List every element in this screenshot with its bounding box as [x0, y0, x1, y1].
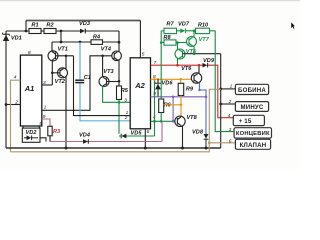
svg-text:VD7: VD7	[178, 21, 190, 27]
junction green vertical 2/pin4 wire	[153, 120, 156, 123]
wire A2 pin9 (purple)	[151, 96, 207, 98]
junction R9 top/orange pin8 wire	[179, 78, 182, 81]
svg-text:VT2: VT2	[55, 79, 66, 85]
svg-text:R10: R10	[198, 22, 209, 28]
svg-text:3: 3	[229, 127, 232, 133]
resistor R5	[117, 86, 129, 100]
wire A2 pin1 from VT1 base line	[74, 56, 131, 116]
resistor R1	[29, 23, 41, 34]
junction VT5 emitter/red wire	[176, 64, 179, 67]
svg-text:КЛАПАН: КЛАПАН	[240, 142, 267, 149]
wire purple drop to VT8 base	[172, 97, 174, 122]
resistor R3	[48, 126, 61, 136]
svg-text:R3: R3	[53, 129, 61, 135]
svg-text:VD3: VD3	[79, 21, 91, 27]
wire orange stub to R9 top	[180, 79, 182, 83]
junction R5 bottom/VT3 emitter wire	[118, 101, 121, 104]
svg-text:5: 5	[142, 52, 145, 58]
svg-text:1: 1	[44, 105, 47, 111]
resistor R7	[164, 21, 177, 33]
svg-text:R8: R8	[163, 35, 171, 41]
svg-text:VD6: VD6	[162, 80, 174, 86]
junction rail2/link	[60, 41, 63, 44]
wire VT2 collector up	[65, 56, 67, 70]
IC block A2	[130, 58, 150, 129]
transistor VT1	[48, 51, 58, 61]
diode VD8	[192, 130, 208, 148]
junction rail1 corner/R4 wire	[118, 41, 121, 44]
wire VT1 emitter down	[51, 60, 53, 85]
junction VT2 emitter/ground	[65, 147, 68, 150]
junction green vertical/R8 rail	[160, 41, 163, 44]
wire A2 pin7 (red) to +15	[151, 65, 234, 118]
wire VT1 base lead	[56, 55, 74, 57]
svg-text:МИНУС: МИНУС	[240, 104, 263, 111]
junction R6 bottom/pin4 wire	[160, 120, 163, 123]
svg-text:R6: R6	[164, 102, 172, 108]
wire to MINUS	[221, 103, 236, 105]
resistor R8	[163, 35, 176, 45]
diode VD5	[119, 131, 142, 139]
svg-text:VD9: VD9	[203, 58, 215, 64]
capacitor C1 (blue wire)	[80, 42, 130, 121]
wire green to KONCEVIK	[215, 31, 234, 132]
wire orange R9 bottom / VT8 collector / R6	[164, 96, 181, 117]
connector box +15	[228, 113, 265, 126]
resistor R10	[196, 22, 210, 33]
svg-text:КОНЦЕВИК: КОНЦЕВИК	[236, 131, 270, 137]
wire black column to minus/ground	[220, 54, 222, 148]
svg-text:VD2: VD2	[26, 130, 38, 136]
wire tan branch to KLAPAN	[209, 142, 235, 144]
svg-text:1: 1	[230, 84, 233, 90]
svg-text:R9: R9	[186, 86, 194, 92]
svg-text:VT1: VT1	[58, 47, 68, 53]
wire A1 pin2	[6, 104, 20, 106]
tan bottom bus to KLAPAN	[11, 89, 221, 152]
diode VD3	[79, 21, 91, 34]
junction VT8 emitter/ground	[181, 147, 184, 150]
transistor VT6	[191, 73, 201, 83]
svg-text:8: 8	[28, 50, 31, 56]
wire A1 pin4 (tan)	[11, 80, 21, 152]
svg-text:6: 6	[229, 138, 232, 144]
junction node rail1/top	[25, 30, 28, 33]
magenta bus VD4	[50, 121, 162, 141]
junction VT4 emitter/VT3 base	[118, 80, 121, 83]
svg-text:2: 2	[228, 99, 232, 105]
wire VD5 to green vertical (under A2)	[126, 135, 154, 137]
wire VT3 collector riser	[102, 56, 104, 77]
svg-text:R4: R4	[93, 35, 101, 41]
wire A1 bottom pins to VD2	[22, 126, 24, 128]
svg-text:VD8: VD8	[192, 130, 204, 136]
svg-text:R1: R1	[31, 23, 38, 29]
diode block VD2	[22, 128, 40, 142]
junction VD8/ground	[205, 147, 208, 150]
junction VT7 emitter/VT5 base wire	[193, 52, 196, 55]
transistor VT5 (green)	[175, 49, 185, 59]
resistor R4	[91, 35, 103, 45]
svg-text:VT6: VT6	[181, 66, 192, 72]
svg-text:БОБИНА: БОБИНА	[238, 87, 266, 94]
svg-text:+ 15: + 15	[239, 118, 252, 125]
wire A1 pin3	[42, 84, 53, 86]
svg-text:VT3: VT3	[103, 69, 114, 75]
transistor VT7 (green)	[187, 37, 197, 47]
wire to BOBINA	[221, 88, 236, 90]
wire VD2 out right	[40, 138, 46, 142]
wire VT2 base	[52, 72, 60, 74]
zener diode VD6	[155, 79, 173, 97]
transistor VT2	[58, 68, 68, 78]
junction purple/VT8 base	[172, 120, 175, 123]
wire A2 pin8 (orange) to VT6 base	[151, 78, 192, 80]
junction A2 pin6/ground	[144, 147, 147, 150]
junction VT4 base wire/VT3 collector	[101, 55, 104, 58]
junction rail2/C1	[79, 41, 82, 44]
capacitor C1 plates	[75, 79, 84, 81]
wire A1 pin9 (magenta) to R3	[42, 119, 50, 126]
mouse cursor	[291, 22, 295, 29]
connector box MINUS	[228, 99, 269, 112]
wire A2 pin4 (green) to VT8 base	[151, 120, 175, 122]
svg-text:VD1: VD1	[11, 35, 22, 41]
transistor VT8	[175, 116, 185, 126]
junction VD6 top/orange pin8 wire	[157, 78, 160, 81]
resistor R9	[178, 83, 194, 95]
wire R3 bottom	[49, 136, 51, 142]
junction node rail1/rail2 link	[60, 30, 63, 33]
svg-text:6: 6	[147, 129, 150, 135]
svg-text:4: 4	[228, 113, 231, 119]
resistor R6	[159, 99, 172, 113]
transistor VT4	[112, 51, 122, 61]
junction VT5 collector/R8 rail	[176, 41, 179, 44]
svg-text:VT7: VT7	[199, 37, 210, 43]
node rail1 y31	[6, 31, 119, 42]
top supply rail	[26, 20, 140, 22]
wire VT4 collector	[118, 42, 120, 52]
svg-text:VT8: VT8	[186, 115, 197, 121]
wire VT4 emitter down to R5	[118, 60, 120, 86]
wire VT2 emitter to ground bus	[65, 77, 67, 149]
ground bus	[6, 147, 221, 149]
wire VT3 emitter (green) to R5 bottom and A2 pin3	[103, 86, 131, 102]
wire VT5 collector to R8 line	[177, 43, 179, 51]
wire VT7 emitter	[193, 46, 195, 54]
connector box KLAPAN	[229, 138, 271, 149]
wire A1 pin1 to VT4 base	[42, 56, 112, 111]
svg-text:3: 3	[124, 98, 127, 104]
wire VT6 emitter (blue) down to VD8	[200, 83, 207, 135]
wire rail1-rail2 link	[60, 31, 62, 42]
node rail2 y42	[52, 42, 119, 51]
junction purple wire/blue vertical	[205, 96, 208, 99]
junction VT6 collector/red wire	[198, 64, 201, 67]
svg-text:VD4: VD4	[79, 132, 91, 138]
diode VD9	[203, 58, 215, 67]
svg-text:R7: R7	[166, 21, 174, 27]
resistor R2	[44, 23, 56, 34]
connector box BOBINA	[230, 84, 269, 95]
wire top rail risers	[26, 21, 140, 58]
svg-text:C1: C1	[84, 75, 91, 81]
junction VT7 collector/green rail	[193, 30, 196, 33]
wire VT5 emitter to red line	[177, 58, 179, 65]
transistor VT3	[99, 77, 109, 87]
wire VT8 emitter to ground	[182, 126, 184, 148]
IC block A1	[20, 55, 41, 126]
diode VD7	[178, 21, 190, 33]
wire VT3 base to VT4 emitter line	[107, 81, 120, 83]
wire R5 bottom to VD5 (green)	[118, 100, 120, 134]
junction blue jog	[198, 89, 200, 91]
svg-text:R5: R5	[121, 88, 129, 94]
zener diode VD1	[3, 31, 22, 148]
svg-text:VT5: VT5	[186, 49, 197, 55]
svg-text:A2: A2	[134, 81, 145, 90]
junction VT1 base wire/VT2 collector	[65, 55, 68, 58]
svg-text:A1: A1	[24, 84, 35, 93]
green supply rail right section	[155, 31, 216, 136]
junction VT1 emitter/VT2 base	[51, 72, 54, 75]
wire VT7 collector	[193, 31, 195, 38]
svg-text:VT4: VT4	[101, 46, 112, 52]
junction tan riser/KLAPAN branch	[208, 142, 211, 145]
wire VT5 base (black) to connector column	[183, 53, 221, 55]
junction green vertical 2/orange pin8 wire	[153, 78, 156, 81]
svg-text:R2: R2	[46, 23, 54, 29]
connector box KONCEVIK	[229, 127, 272, 138]
wire VT6 collector to red line	[198, 65, 200, 74]
diode VD4	[79, 132, 91, 143]
wire A2 pin6 to ground	[144, 129, 146, 148]
